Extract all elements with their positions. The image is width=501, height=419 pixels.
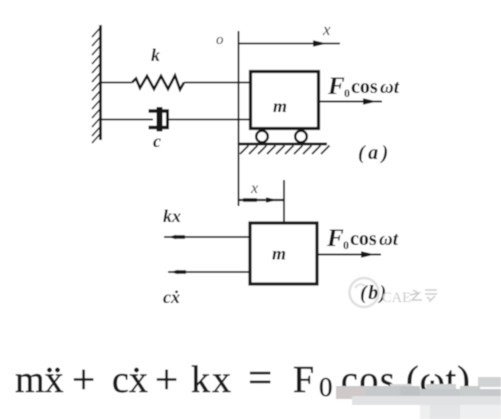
mosaic patch	[336, 377, 501, 419]
spring k wire right	[184, 82, 251, 84]
svg-text:F: F	[293, 359, 314, 401]
svg-text:cx: cx	[112, 359, 148, 401]
watermark glyph zhi	[410, 290, 422, 300]
svg-text:x: x	[322, 20, 331, 39]
spring k wire left	[101, 82, 132, 84]
arrow kx (b)	[164, 236, 250, 238]
x axis arrow (a)	[239, 43, 341, 45]
svg-text:kx: kx	[191, 359, 233, 401]
ground line (a)	[239, 143, 328, 146]
mass m block (a)	[251, 72, 319, 129]
svg-text:k: k	[151, 45, 160, 65]
svg-text:0: 0	[319, 372, 333, 402]
force arrow F (b)	[318, 254, 382, 256]
svg-text:cos: cos	[351, 76, 378, 98]
svg-text:+: +	[155, 356, 178, 402]
damper c piston	[157, 107, 163, 132]
force arrow F (a)	[318, 101, 382, 103]
svg-text:ωt: ωt	[379, 229, 399, 250]
roller left (a)	[256, 131, 268, 143]
svg-text:+: +	[72, 356, 95, 402]
reference line through o	[238, 31, 240, 206]
svg-text:ωt: ωt	[380, 77, 400, 98]
damper c rod right	[169, 119, 251, 121]
svg-text:cẋ: cẋ	[163, 287, 180, 307]
svg-text:x: x	[250, 180, 258, 197]
svg-text:m: m	[273, 96, 287, 116]
svg-text:(a): (a)	[358, 142, 392, 164]
spring k zigzag	[132, 76, 184, 90]
damper c cylinder	[149, 110, 170, 130]
watermark glyph jia	[425, 290, 437, 302]
svg-text:o: o	[216, 32, 224, 48]
mass m block (b)	[250, 223, 317, 284]
dimension x line (b)	[239, 199, 284, 201]
label F0cos wt (a)	[327, 73, 400, 100]
svg-text:mx: mx	[15, 359, 64, 401]
svg-text:0: 0	[344, 86, 350, 100]
svg-text:c: c	[153, 131, 161, 151]
ground hatching (a)	[240, 146, 330, 155]
svg-text:0: 0	[343, 238, 349, 252]
svg-text:=: =	[248, 355, 272, 402]
label F0cos wt (b)	[326, 225, 399, 252]
wall	[92, 25, 101, 143]
svg-text:m: m	[272, 244, 286, 264]
hanger line (b)	[283, 180, 285, 224]
svg-text:F: F	[327, 73, 345, 100]
svg-text:F: F	[326, 225, 344, 252]
watermark logo circle	[350, 278, 379, 307]
svg-text:CAE: CAE	[382, 290, 411, 306]
damper c rod left	[101, 119, 153, 121]
svg-text:kx: kx	[163, 206, 181, 226]
roller right (a)	[295, 131, 307, 143]
arrow cx-dot (b)	[168, 271, 250, 273]
svg-text:cos: cos	[350, 228, 377, 250]
equation	[15, 355, 471, 402]
